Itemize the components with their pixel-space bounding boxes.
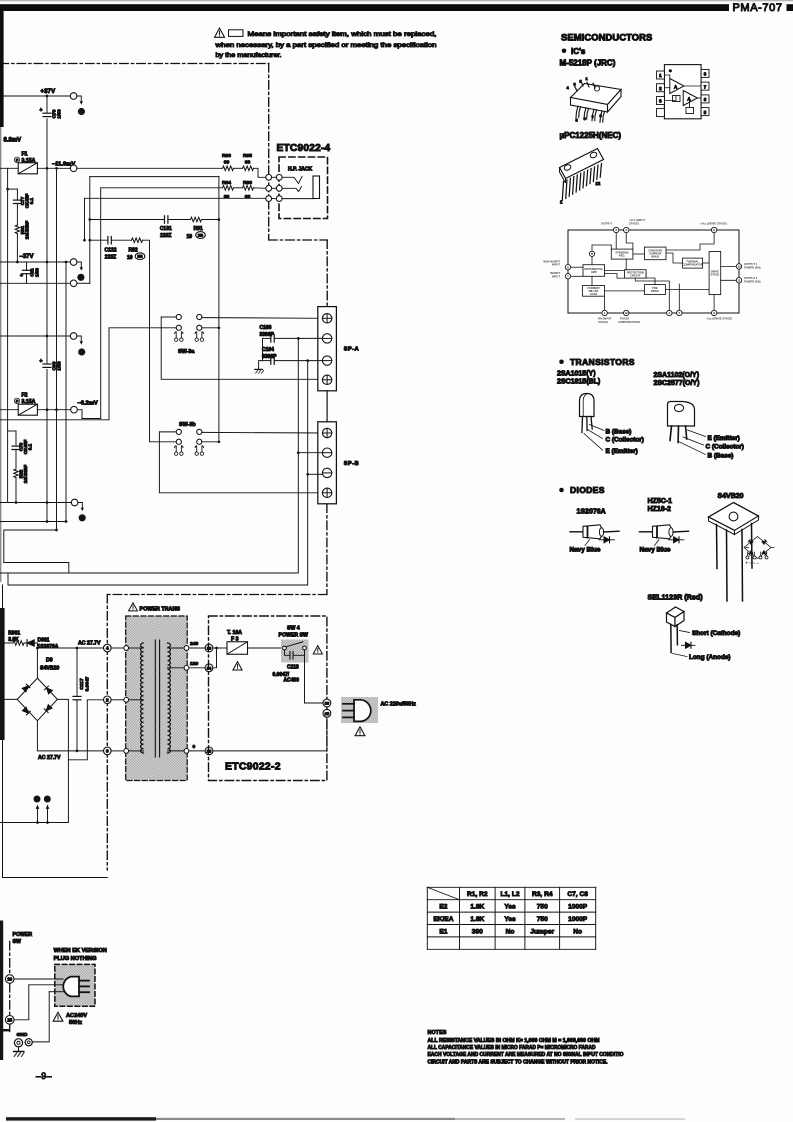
capacitor C131 — [164, 216, 166, 223]
svg-text:SW: SW — [13, 939, 21, 945]
svg-text:REG.: REG. — [619, 254, 626, 258]
svg-text:OUTPUT 1: OUTPUT 1 — [744, 262, 758, 266]
wire 16 to plug — [14, 978, 63, 980]
wire +37V rail — [0, 95, 70, 97]
jack connector pins col1 — [266, 174, 272, 180]
svg-text:R91: R91 — [194, 226, 203, 232]
svg-text:AC 27.7V: AC 27.7V — [78, 641, 101, 647]
svg-text:+: + — [40, 359, 43, 365]
resistor R82 — [14, 469, 18, 478]
svg-text:TRANSISTORS: TRANSISTORS — [570, 357, 635, 367]
svg-text:E1: E1 — [439, 928, 447, 935]
svg-text:3300P: 3300P — [260, 332, 275, 338]
svg-text:LOAD: LOAD — [590, 292, 597, 296]
diode D901 — [27, 640, 34, 646]
svg-text:SW 4: SW 4 — [287, 626, 300, 632]
svg-text:3: 3 — [106, 749, 109, 754]
svg-text:68: 68 — [224, 160, 230, 166]
bottom edge band — [6, 1117, 156, 1120]
svg-text:1/50: 1/50 — [35, 268, 40, 277]
bottom-left thick edge — [0, 921, 3, 1061]
wire between SP blocks — [326, 391, 328, 422]
svg-text:M-5218P (JRC): M-5218P (JRC) — [560, 58, 616, 67]
wire SP-B minus1 — [298, 452, 322, 454]
wire R84-R86 — [234, 187, 243, 189]
wire gnd to plug — [49, 991, 63, 993]
svg-text:HZ5C-1: HZ5C-1 — [648, 498, 673, 505]
wire R86 to jack row2 — [254, 187, 266, 190]
svg-text:1.8K: 1.8K — [470, 904, 484, 911]
wire -37V rail — [0, 261, 70, 263]
dash-dot border vertical to SP-A — [326, 240, 328, 307]
resistor R81 — [15, 225, 19, 234]
svg-text:PHASE: PHASE — [620, 317, 629, 321]
svg-text:0.0047: 0.0047 — [85, 676, 91, 691]
svg-text:223Z: 223Z — [105, 254, 116, 260]
svg-text:POWER (RH): POWER (RH) — [744, 280, 761, 284]
svg-text:–37V: –37V — [20, 254, 34, 260]
svg-text:+Vcc (DRIVE STAGE): +Vcc (DRIVE STAGE) — [700, 222, 727, 226]
wire vertical x=56.5 — [56, 168, 58, 530]
dash-dot border horizontal y=594.5 — [107, 594, 327, 596]
svg-text:SW-3a: SW-3a — [178, 349, 195, 355]
svg-text:15: 15 — [325, 711, 330, 716]
svg-text:S4VB20: S4VB20 — [718, 493, 744, 500]
wire vertical x=100.7 — [100, 188, 102, 419]
EK plug symbol — [63, 977, 89, 997]
wire to terminal 4 — [34, 643, 103, 648]
svg-text:F1: F1 — [22, 152, 28, 158]
svg-text:POWER: POWER — [13, 932, 33, 938]
svg-text:10: 10 — [187, 234, 193, 240]
transformer left taps — [111, 647, 124, 649]
svg-text:C (Collector): C (Collector) — [706, 443, 744, 450]
svg-text:R3, R4: R3, R4 — [532, 891, 553, 898]
wire SW4 to terminal 16 — [305, 655, 323, 703]
svg-text:B (Base): B (Base) — [606, 429, 632, 436]
jack ring contact — [282, 187, 301, 192]
svg-text:AC 220v/50Hz: AC 220v/50Hz — [381, 702, 417, 708]
svg-text:ALL CAPACITANCE VALUES IN MICR: ALL CAPACITANCE VALUES IN MICRO FARAD P=… — [428, 1045, 596, 1051]
transformer secondary winding — [168, 643, 171, 753]
wire 15 to plug — [14, 985, 63, 1020]
svg-text:1S2076A: 1S2076A — [577, 509, 606, 516]
svg-text:CIRCUIT: CIRCUIT — [630, 273, 641, 277]
wire y=283.3 — [0, 282, 70, 284]
ETC9022-2 dashed box — [209, 616, 327, 781]
svg-text:15: 15 — [207, 749, 212, 754]
svg-text:11: 11 — [45, 797, 49, 801]
svg-text:4: 4 — [106, 646, 109, 651]
svg-text:R901: R901 — [8, 631, 20, 637]
left page-edge bar — [0, 11, 4, 127]
svg-text:0: 0 — [193, 744, 196, 750]
dash-dot stub bottom — [9, 942, 11, 975]
wire R85 to jack row1 — [254, 168, 266, 177]
svg-text:Jumper: Jumper — [530, 928, 554, 935]
terminal 14 — [205, 664, 213, 672]
svg-text:15: 15 — [7, 1017, 12, 1022]
svg-text:16: 16 — [325, 701, 330, 706]
svg-text:–9–: –9– — [36, 1071, 52, 1081]
wire vertical x=7.6 — [7, 168, 9, 502]
wire -11.9mV to R83 — [77, 167, 223, 169]
safety note text — [214, 31, 437, 59]
wire y=419.8 — [0, 328, 176, 420]
terminal +37V — [70, 93, 77, 100]
node E — [79, 515, 85, 521]
svg-text:R85: R85 — [243, 153, 252, 159]
svg-text:2SA1015(Y): 2SA1015(Y) — [557, 371, 596, 378]
capacitor C81 — [26, 262, 28, 270]
terminal -6.2mV — [71, 406, 78, 413]
svg-text:68: 68 — [245, 194, 251, 200]
ground C104 — [259, 361, 263, 370]
svg-text:13: 13 — [207, 646, 212, 651]
svg-text:NB: NB — [198, 233, 204, 237]
dash-dot border SP-B down to power section — [326, 504, 328, 595]
terminal 3 — [104, 747, 112, 755]
svg-text:COMPENSATOR: COMPENSATOR — [682, 263, 702, 267]
svg-text:HZ18-2: HZ18-2 — [648, 506, 671, 513]
capacitor C78 branch — [8, 430, 16, 432]
terminal 2 — [104, 696, 112, 704]
svg-text:1000P: 1000P — [568, 904, 588, 911]
svg-text:R83: R83 — [222, 153, 231, 159]
svg-text:3300P: 3300P — [262, 354, 277, 360]
svg-text:C103: C103 — [260, 325, 272, 331]
wire C131 row — [88, 218, 91, 221]
svg-text:EK/EA: EK/EA — [433, 916, 453, 923]
node C — [79, 349, 85, 355]
terminal -11.9mV — [70, 165, 77, 172]
svg-text:ETC9022-2: ETC9022-2 — [225, 762, 281, 773]
pin indicator 11 — [44, 796, 50, 802]
bridge output U loop — [57, 699, 103, 759]
transformer right taps — [168, 647, 185, 649]
svg-text:Yes: Yes — [504, 916, 516, 923]
svg-text:2: 2 — [106, 697, 109, 702]
ground symbol — [18, 1047, 20, 1051]
uPC1225H block diagram — [543, 218, 760, 324]
svg-text:INVERT: INVERT — [550, 271, 560, 275]
jack sleeve wire — [282, 198, 313, 200]
svg-text:C104: C104 — [262, 347, 274, 353]
POWER TRANS warning label — [129, 603, 138, 611]
svg-text:750: 750 — [537, 916, 548, 923]
svg-text:POWER SW: POWER SW — [279, 633, 308, 639]
switch SW-3b — [159, 422, 322, 493]
svg-text:2SA1102(O/Y): 2SA1102(O/Y) — [654, 372, 700, 379]
svg-text:+Vcc (INPUT: +Vcc (INPUT — [629, 218, 645, 222]
version table — [427, 887, 595, 949]
wire y=176.6 — [90, 176, 219, 178]
bottom rail y=530 step — [4, 530, 69, 573]
dash-dot border vertical x=107.3 — [106, 595, 108, 871]
wire SP-B minus2 — [308, 473, 323, 475]
svg-text:750: 750 — [537, 904, 548, 911]
jack sleeve — [313, 176, 320, 199]
svg-text:NOTES: NOTES — [428, 1030, 447, 1036]
svg-text:DIODES: DIODES — [570, 485, 605, 495]
pin indicator 10 — [34, 796, 40, 802]
speaker block SP-A — [318, 307, 337, 391]
svg-text:10: 10 — [127, 255, 133, 261]
capacitor C118 — [285, 650, 291, 655]
svg-text:OUTPUT 2: OUTPUT 2 — [744, 276, 758, 280]
M-5218P logic diagram — [657, 65, 710, 119]
svg-text:DRIVE: DRIVE — [651, 289, 659, 293]
board outline bottom outer — [8, 361, 308, 585]
dash-dot border vertical x=268.7 — [268, 64, 270, 241]
svg-text:220: 220 — [190, 661, 198, 667]
EK plug hatched box — [55, 964, 95, 1006]
capacitor C80 — [43, 363, 52, 369]
terminal 16 bottom — [5, 975, 14, 984]
dash-dot border horizontal y=240 — [269, 239, 328, 241]
svg-text:240: 240 — [190, 641, 198, 647]
svg-text:STAGE: STAGE — [711, 273, 720, 277]
svg-text:8.8mV: 8.8mV — [4, 138, 22, 144]
svg-text:+37V: +37V — [41, 88, 56, 95]
terminal 15 bottom — [5, 1016, 14, 1025]
svg-text:Long (Anode): Long (Anode) — [689, 654, 731, 661]
svg-text:E: E — [81, 515, 84, 520]
svg-text:1S2076A: 1S2076A — [38, 644, 59, 650]
wire vertical x=218.9 — [218, 177, 220, 442]
wire F3 to SW4 — [248, 647, 283, 649]
warning below plug — [355, 727, 365, 736]
svg-text:T. 10A: T. 10A — [227, 630, 242, 636]
terminal 4 — [104, 644, 112, 652]
svg-text:STAGE): STAGE) — [598, 320, 608, 324]
jack tip contact — [282, 177, 302, 184]
svg-text:B: B — [79, 275, 82, 280]
svg-text:INPUT: INPUT — [552, 275, 560, 279]
jack connector pins col2 — [276, 174, 282, 180]
svg-text:SP-A: SP-A — [344, 347, 359, 353]
resistor R92 — [132, 238, 143, 243]
svg-text:C131: C131 — [160, 226, 172, 232]
svg-text:(BIAS): (BIAS) — [651, 254, 659, 258]
svg-text:Yes: Yes — [504, 904, 516, 911]
wire C132 row — [88, 239, 91, 242]
switch SW-3a — [161, 314, 322, 379]
svg-text:CIRCUIT AND PARTS ARE SUBJECT: CIRCUIT AND PARTS ARE SUBJECT TO CHANGE … — [428, 1059, 609, 1065]
svg-text:No: No — [573, 928, 582, 935]
svg-text:No: No — [506, 928, 515, 935]
transformer core — [154, 640, 156, 757]
bridge mini schematic — [744, 537, 774, 566]
svg-text:PMA-707: PMA-707 — [733, 2, 783, 14]
svg-text:NB: NB — [137, 255, 143, 259]
svg-text:C132: C132 — [105, 247, 117, 253]
warning right of SW4 — [313, 646, 322, 654]
svg-text:SP-B: SP-B — [344, 461, 359, 467]
bottom rail y=521.5 — [0, 521, 67, 523]
svg-text:0.1: 0.1 — [29, 197, 34, 204]
top title bar — [0, 4, 729, 11]
svg-text:when necessary, by a part spec: when necessary, by a part specified or m… — [214, 42, 437, 49]
svg-text:AC240V: AC240V — [66, 1013, 87, 1019]
svg-text:Navy Blue: Navy Blue — [640, 547, 671, 554]
svg-text:SEMICONDUCTORS: SEMICONDUCTORS — [561, 31, 652, 42]
svg-text:1/50: 1/50 — [57, 361, 63, 371]
svg-text:POWER (RH): POWER (RH) — [744, 266, 761, 270]
bridge rectifier D9 S4VB20 — [0, 648, 59, 721]
wire 15 to transformer 0 tap — [213, 717, 327, 751]
svg-text:ETC9022-4: ETC9022-4 — [277, 143, 331, 154]
svg-text:SW-3b: SW-3b — [179, 422, 196, 428]
AC plug right — [341, 697, 378, 723]
svg-text:AC 27.7V: AC 27.7V — [38, 755, 61, 761]
svg-text:H.P. JACK: H.P. JACK — [288, 167, 312, 173]
wire vertical x=66 — [65, 262, 67, 522]
dash-dot border top horizontal — [0, 63, 269, 65]
svg-text:EACH VOLTAGE AND CURRENT ARE M: EACH VOLTAGE AND CURRENT ARE MEASURED AT… — [428, 1052, 624, 1058]
GND lug — [14, 1039, 32, 1047]
transistor TO-92 — [580, 394, 644, 455]
svg-text:Navy Blue: Navy Blue — [570, 547, 601, 554]
svg-text:INPUT: INPUT — [552, 263, 560, 267]
wire vertical x=89.8 — [89, 177, 91, 284]
bridge S4VB20 drawing — [709, 503, 759, 602]
wire y=198.3 to jack row3 — [85, 197, 266, 199]
svg-text:B (Base): B (Base) — [708, 452, 734, 459]
svg-text:0.1: 0.1 — [28, 443, 33, 450]
svg-text:C7, C8: C7, C8 — [567, 891, 588, 898]
svg-text:POWER TRANS: POWER TRANS — [140, 607, 181, 613]
warning below F3 — [233, 662, 242, 670]
svg-text:C (Collector): C (Collector) — [606, 437, 644, 444]
svg-text:AC400: AC400 — [284, 678, 300, 684]
svg-text:D9: D9 — [46, 658, 53, 664]
svg-text:F2: F2 — [22, 393, 28, 399]
svg-text:COMPENSATION: COMPENSATION — [618, 320, 640, 324]
terminal 16 — [323, 699, 331, 707]
wire R83-R85 — [234, 167, 243, 169]
svg-text:C118: C118 — [287, 665, 299, 671]
svg-text:RH (INPUT: RH (INPUT — [598, 317, 612, 321]
svg-text:R1, R2: R1, R2 — [467, 891, 488, 898]
uPC1225H SIP package — [560, 149, 604, 205]
capacitor C117 — [76, 648, 78, 696]
terminal -37V — [70, 259, 77, 266]
svg-text:SEL1123R (Red): SEL1123R (Red) — [648, 593, 704, 602]
wire x=68.4 down to rail — [0, 760, 68, 823]
terminal 15 — [205, 747, 213, 755]
svg-text:14: 14 — [207, 665, 212, 670]
svg-text:12: 12 — [596, 181, 601, 186]
power transformer hatched box — [126, 616, 188, 781]
svg-text:+ ~ ~ −: + ~ ~ − — [746, 561, 760, 566]
svg-text:223Z: 223Z — [160, 233, 171, 239]
safety note box icon — [229, 30, 244, 37]
svg-text:GND: GND — [17, 1032, 28, 1038]
wire node C rail — [0, 335, 70, 337]
svg-text:D901: D901 — [38, 638, 50, 644]
svg-text:STAGE): STAGE) — [629, 222, 639, 226]
svg-text:1000P: 1000P — [568, 916, 588, 923]
capacitor C77 branch — [6, 188, 9, 191]
M-5218P DIP package — [567, 76, 622, 123]
speaker block SP-B — [318, 422, 337, 504]
svg-text:7: 7 — [592, 115, 594, 120]
svg-text:Means important safety item, w: Means important safety item, which must … — [248, 31, 437, 38]
LED drawing — [667, 607, 741, 661]
node A — [78, 108, 84, 114]
svg-text:50Hz: 50Hz — [69, 1020, 82, 1026]
svg-text:2SC2577(O/Y): 2SC2577(O/Y) — [654, 380, 700, 387]
diode 1S2076A drawing — [570, 531, 583, 533]
wire R84 row — [101, 187, 223, 189]
node B — [78, 274, 84, 280]
svg-text:C117: C117 — [79, 678, 85, 690]
svg-text:68: 68 — [224, 194, 230, 200]
svg-text:IC’s: IC’s — [571, 47, 586, 56]
svg-text:12: 12 — [625, 311, 629, 315]
resistor R91 — [191, 217, 202, 222]
svg-text:Short (Cathode): Short (Cathode) — [692, 630, 740, 637]
safety note warning triangle — [215, 28, 225, 37]
svg-text:+: + — [20, 273, 23, 279]
terminal node C — [70, 333, 77, 340]
wire bridge bottom to terminal 3 — [37, 721, 103, 751]
svg-text:10/JNBF: 10/JNBF — [23, 465, 28, 484]
svg-text:by the manufacturer.: by the manufacturer. — [216, 52, 282, 59]
diode HZ drawing — [640, 531, 653, 533]
svg-text:2SC1815(BL): 2SC1815(BL) — [557, 378, 600, 385]
svg-text:–6.2mV: –6.2mV — [78, 401, 98, 407]
svg-text:L1, L2: L1, L2 — [500, 891, 519, 898]
terminal node E — [71, 499, 78, 506]
svg-text:µPC1225H(NEC): µPC1225H(NEC) — [560, 131, 622, 140]
wire R901 row — [5, 642, 14, 644]
title square mark — [787, 4, 793, 11]
wire vertical rail x=47 — [46, 96, 48, 522]
wire F2 row — [0, 409, 18, 411]
svg-text:S4VB20: S4VB20 — [40, 666, 59, 672]
svg-text:11: 11 — [737, 279, 741, 283]
svg-text:+: + — [40, 108, 43, 114]
terminal 15 plug — [323, 709, 331, 717]
svg-text:ALL RESISTANCE VALUES IN OHM K: ALL RESISTANCE VALUES IN OHM K= 1,000 OH… — [428, 1038, 600, 1044]
svg-text:E (Emitter): E (Emitter) — [708, 435, 740, 442]
svg-text:1.8K: 1.8K — [470, 916, 484, 923]
svg-text:WHEN EK VERSION: WHEN EK VERSION — [54, 948, 107, 954]
svg-text:10/JNBF: 10/JNBF — [25, 221, 30, 240]
svg-text:AMP: AMP — [591, 270, 597, 274]
transformer primary winding — [141, 643, 144, 753]
svg-text:PLUG NOTHING: PLUG NOTHING — [54, 956, 97, 962]
svg-text:R92: R92 — [129, 247, 138, 253]
terminal 13 — [205, 644, 213, 652]
TRANSISTORS heading — [559, 360, 564, 365]
svg-text:10: 10 — [35, 797, 39, 801]
svg-text:16: 16 — [7, 977, 12, 982]
wire 220 tap riser — [213, 648, 217, 668]
svg-text:68: 68 — [245, 160, 251, 166]
notes text — [428, 1030, 624, 1065]
svg-text:1/50: 1/50 — [57, 109, 63, 119]
svg-text:10: 10 — [737, 265, 741, 269]
capacitor C79 — [43, 113, 52, 119]
wire vertical x=84.5 — [84, 198, 86, 240]
capacitor C132 — [107, 237, 109, 244]
H.P. JACK box — [279, 157, 328, 219]
page top hairline — [0, 0, 793, 1]
svg-text:E2: E2 — [439, 904, 447, 911]
